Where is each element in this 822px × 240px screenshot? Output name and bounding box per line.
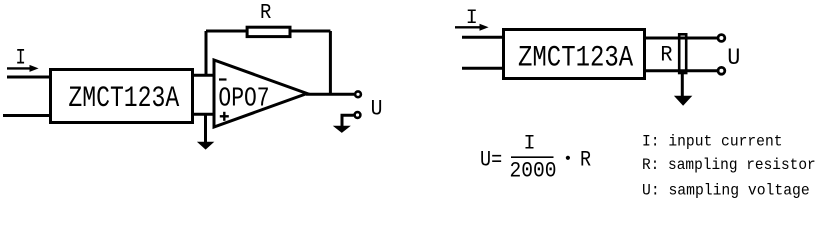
svg-text:I: I [523, 132, 535, 155]
svg-text:R: R [580, 148, 591, 173]
svg-text:I: I [15, 46, 25, 71]
svg-text:U: U [371, 98, 383, 122]
svg-text:R: sampling resistor: R: sampling resistor [642, 155, 816, 174]
svg-text:I: input current: I: input current [642, 132, 783, 151]
svg-text:I: I [466, 7, 478, 30]
svg-text:R: R [260, 0, 271, 24]
svg-text:U: U [727, 45, 740, 72]
svg-text:U: sampling voltage: U: sampling voltage [642, 181, 810, 200]
svg-text:ZMCT123A: ZMCT123A [518, 41, 634, 75]
svg-text:OPO7: OPO7 [218, 85, 269, 115]
svg-text:2000: 2000 [510, 160, 557, 184]
svg-text:R: R [660, 43, 672, 68]
svg-text:ZMCT123A: ZMCT123A [68, 82, 180, 116]
svg-text:U=: U= [480, 148, 502, 173]
